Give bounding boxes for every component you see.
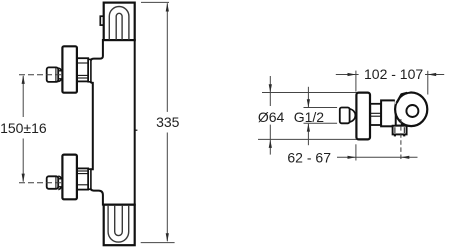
svg-text:G1/2: G1/2 — [294, 109, 325, 125]
svg-text:335: 335 — [156, 114, 180, 130]
svg-text:102 - 107: 102 - 107 — [364, 66, 423, 82]
svg-text:62 - 67: 62 - 67 — [287, 149, 331, 165]
svg-text:Ø64: Ø64 — [258, 109, 285, 125]
svg-text:150±16: 150±16 — [0, 120, 47, 136]
